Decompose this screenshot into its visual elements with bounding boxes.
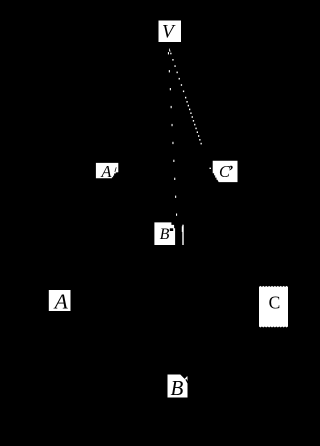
label box A' (bottom-right corner notched) (96, 163, 118, 178)
black streak on B box right side (186, 379, 188, 383)
dotted ray V to C' (dense dots) (170, 53, 202, 145)
label box B' (top-right corner notched) (154, 222, 175, 245)
dotted ray V to B' (dashed, sparse) (168, 52, 177, 216)
vertex label box V (159, 21, 182, 43)
label box B (top edge notched) (168, 375, 188, 398)
svg-text:B: B (160, 226, 170, 243)
prime of C' (229, 166, 233, 171)
label box C' (bottom-left corner notched) (213, 161, 238, 182)
svg-text:B: B (171, 376, 184, 400)
inner black notch on B' (170, 228, 173, 231)
svg-text:A: A (100, 162, 112, 181)
prime tick of A' (115, 167, 117, 172)
arrow mark below V (start of projection rays) (169, 49, 171, 52)
svg-text:A: A (53, 289, 69, 313)
svg-text:C: C (269, 293, 281, 313)
last dot of ray V-C' near C' box (210, 168, 211, 169)
label box A (49, 290, 71, 311)
label box C (zigzag edges) (259, 286, 288, 328)
short vertical line right of B' (182, 225, 183, 245)
svg-text:C: C (219, 162, 231, 181)
